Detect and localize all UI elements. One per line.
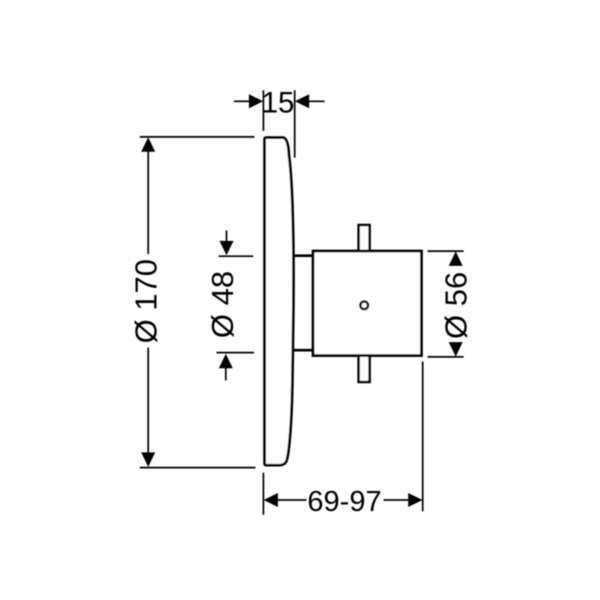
dim Ø48: top arrow (down) — [220, 241, 234, 255]
dim 69-97: right arrow — [408, 493, 422, 507]
dim 69-97: left arrow — [264, 493, 278, 507]
handle bottom tab — [359, 356, 370, 382]
handle top tab — [359, 225, 370, 252]
dim 15: right extension line — [294, 90, 296, 157]
dim 69-97: right extension line — [422, 362, 424, 512]
dim Ø48: top stub line — [226, 231, 228, 243]
dim 69-97: right line segment — [384, 499, 410, 501]
stem sleeve bottom line — [293, 349, 313, 352]
dim Ø170: lower line segment — [147, 348, 149, 454]
svg-text:15: 15 — [262, 86, 295, 119]
svg-text:Ø 170: Ø 170 — [129, 259, 164, 343]
dim Ø48: top tick line — [219, 255, 254, 257]
handle body (square) — [313, 251, 422, 356]
dim Ø170: top extension line — [140, 136, 255, 138]
dim 15: left leader line — [234, 100, 250, 102]
svg-text:Ø 48: Ø 48 — [205, 271, 240, 338]
handle screw hole — [360, 301, 368, 309]
dim Ø56: top arrow (up) — [449, 251, 463, 266]
dim 69-97: left extension line — [262, 473, 264, 515]
dim 15: left arrow — [249, 94, 263, 108]
dim Ø48: bottom tick line — [217, 352, 255, 354]
escutcheon plate (side profile) — [265, 138, 294, 466]
dim Ø170: bottom extension line — [140, 467, 256, 469]
dim 69-97: left line segment — [277, 499, 307, 501]
dim Ø48: bottom stub line — [225, 367, 227, 380]
svg-text:69-97: 69-97 — [307, 486, 381, 518]
dim 15: right leader line — [308, 100, 324, 102]
dim 15: left extension line — [262, 90, 264, 131]
dim Ø56: top extension line — [428, 250, 464, 252]
dim Ø170: bottom arrow — [141, 452, 155, 467]
dim Ø56: bottom extension line — [428, 356, 464, 358]
dim 15: right arrow — [295, 94, 309, 108]
dim Ø170: top arrow — [141, 137, 155, 152]
dim Ø56: bottom arrow (down) — [449, 342, 463, 357]
dim Ø170: upper line segment — [147, 151, 149, 254]
stem sleeve top line — [293, 254, 313, 257]
dim Ø48: bottom arrow (up) — [219, 354, 233, 368]
svg-text:Ø 56: Ø 56 — [439, 272, 474, 339]
